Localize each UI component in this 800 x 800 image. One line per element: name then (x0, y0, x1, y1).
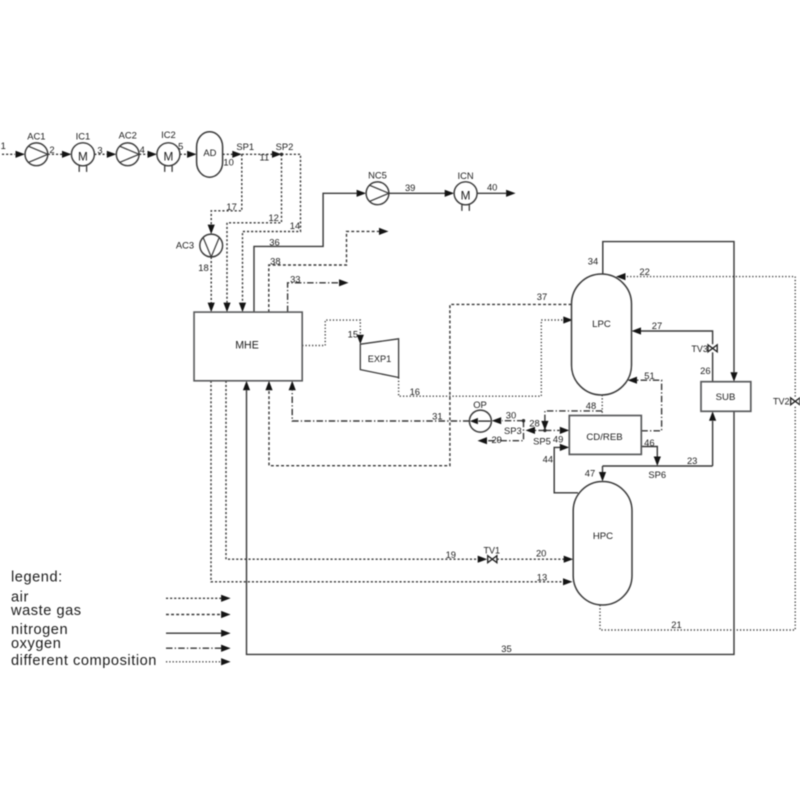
svg-text:26: 26 (700, 365, 710, 376)
svg-text:1: 1 (1, 140, 6, 151)
svg-text:36: 36 (269, 236, 279, 247)
svg-text:11: 11 (260, 152, 270, 163)
svg-text:13: 13 (537, 572, 547, 583)
svg-text:16: 16 (410, 386, 420, 397)
svg-text:AD: AD (203, 147, 216, 158)
svg-text:22: 22 (639, 266, 649, 277)
svg-text:14: 14 (290, 220, 300, 231)
svg-text:38: 38 (270, 256, 280, 267)
svg-text:AC2: AC2 (119, 129, 137, 140)
svg-text:3: 3 (97, 144, 102, 155)
svg-text:legend:: legend: (11, 569, 63, 585)
svg-text:TV3: TV3 (691, 344, 708, 354)
svg-text:different composition: different composition (11, 653, 157, 669)
svg-text:EXP1: EXP1 (368, 354, 392, 364)
svg-text:33: 33 (290, 274, 300, 285)
svg-text:5: 5 (178, 141, 183, 152)
svg-text:CD/REB: CD/REB (586, 432, 622, 443)
svg-text:31: 31 (432, 410, 442, 421)
svg-text:40: 40 (487, 182, 497, 193)
svg-text:30: 30 (506, 409, 516, 420)
svg-text:NC5: NC5 (368, 170, 387, 181)
svg-text:21: 21 (671, 619, 681, 630)
svg-text:47: 47 (585, 467, 595, 478)
svg-text:51: 51 (644, 370, 654, 381)
svg-text:ICN: ICN (458, 170, 474, 181)
svg-text:48: 48 (586, 400, 596, 411)
svg-text:TV2: TV2 (773, 397, 790, 407)
svg-text:SP1: SP1 (236, 141, 254, 152)
svg-text:SP5: SP5 (533, 436, 551, 447)
svg-text:17: 17 (226, 201, 236, 212)
svg-text:39: 39 (405, 182, 415, 193)
svg-text:18: 18 (198, 262, 208, 273)
svg-text:M: M (78, 150, 88, 164)
svg-text:27: 27 (652, 320, 662, 331)
svg-text:20: 20 (536, 548, 546, 559)
svg-text:23: 23 (687, 455, 697, 466)
svg-text:AC3: AC3 (176, 240, 194, 251)
svg-text:46: 46 (644, 437, 654, 448)
svg-text:waste gas: waste gas (10, 603, 82, 619)
svg-text:SP2: SP2 (276, 141, 294, 152)
svg-text:M: M (461, 189, 471, 203)
svg-text:oxygen: oxygen (11, 636, 61, 652)
svg-text:37: 37 (537, 291, 547, 302)
svg-text:10: 10 (223, 156, 233, 167)
svg-text:LPC: LPC (592, 319, 611, 330)
svg-text:29: 29 (491, 434, 501, 445)
svg-text:49: 49 (553, 433, 563, 444)
svg-text:TV1: TV1 (484, 545, 501, 555)
svg-text:SP3: SP3 (504, 425, 522, 436)
svg-text:IC2: IC2 (161, 129, 176, 140)
svg-text:34: 34 (588, 256, 598, 267)
svg-text:AC1: AC1 (27, 130, 45, 141)
svg-text:28: 28 (529, 418, 539, 429)
svg-text:19: 19 (446, 549, 456, 560)
svg-text:4: 4 (140, 144, 145, 155)
svg-text:OP: OP (473, 399, 487, 410)
svg-text:15: 15 (348, 329, 358, 340)
svg-text:IC1: IC1 (76, 130, 91, 141)
svg-text:12: 12 (268, 212, 278, 223)
svg-text:SUB: SUB (716, 392, 736, 403)
svg-text:2: 2 (49, 144, 54, 155)
svg-text:35: 35 (501, 643, 511, 654)
svg-text:M: M (163, 150, 173, 164)
svg-text:HPC: HPC (593, 531, 613, 542)
svg-text:44: 44 (543, 454, 553, 465)
svg-text:MHE: MHE (235, 340, 259, 352)
svg-text:SP6: SP6 (648, 469, 666, 480)
